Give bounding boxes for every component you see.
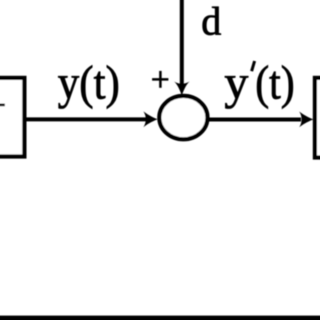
wire d: vertical input from top — [180, 0, 184, 86]
plus sign at summing junction — [152, 78, 168, 81]
block (right, cut off at image edge) — [315, 78, 320, 158]
svg-text:y: y — [224, 57, 248, 110]
svg-text:d: d — [201, 0, 221, 44]
arrowhead into right block — [299, 112, 313, 128]
wire y(t): left block to summing junction — [26, 117, 146, 121]
arrowhead into summing junction (left) — [143, 111, 157, 127]
svg-text:y(t): y(t) — [58, 56, 120, 109]
svg-text:(t): (t) — [255, 57, 295, 110]
wire y'(t): summing junction to right block — [207, 118, 301, 122]
border line at bottom — [0, 316, 320, 320]
label fragment inside left block — [0, 104, 5, 107]
summing junction — [159, 96, 207, 139]
block (left, cut off at image edge) — [0, 78, 24, 157]
arrowhead into summing junction (top) — [174, 81, 190, 95]
prime mark on y'(t) — [252, 61, 255, 71]
